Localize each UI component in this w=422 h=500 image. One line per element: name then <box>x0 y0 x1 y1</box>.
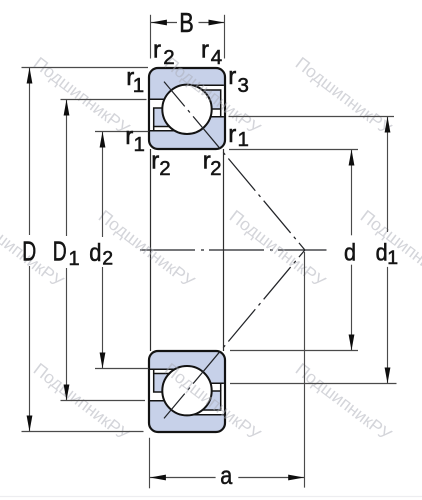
arrow D1 down <box>64 385 70 401</box>
dim line a <box>150 477 216 479</box>
svg-text:2: 2 <box>102 248 113 270</box>
cage left (top section) <box>154 108 191 127</box>
ext line D1 top <box>61 99 147 101</box>
svg-text:d: d <box>376 238 388 265</box>
cage left (bottom section) <box>154 374 191 393</box>
svg-text:2: 2 <box>159 157 170 180</box>
contact angle line upper <box>164 82 305 250</box>
dim line D <box>29 68 31 236</box>
svg-text:d: d <box>89 239 101 267</box>
arrow D down <box>27 416 33 432</box>
svg-text:1: 1 <box>133 74 144 97</box>
svg-text:r: r <box>201 36 209 63</box>
cage right pocket clearance edge (bottom) <box>220 383 222 391</box>
arrow B left <box>151 20 167 26</box>
outer/inner ring block (top) <box>149 68 225 149</box>
arrow D up <box>27 68 33 84</box>
ext line D1 bottom <box>61 400 146 402</box>
inner ring raceway edge right (bottom) <box>187 382 224 384</box>
bearing upper section <box>149 68 225 149</box>
outer surface line <box>223 149 225 351</box>
ext line d1 bottom <box>230 383 397 385</box>
arrow d2 up <box>100 132 106 148</box>
arrow d1 up <box>385 117 391 133</box>
raceway gap right (bottom section) <box>187 383 224 415</box>
outer ring raceway edge right <box>187 84 224 86</box>
bore surface line <box>150 149 152 351</box>
ext line B left <box>150 15 152 59</box>
svg-text:1: 1 <box>238 128 249 151</box>
bearing lower section <box>149 351 225 432</box>
dim line D1 <box>66 100 68 237</box>
arrow a left <box>150 475 166 481</box>
svg-text:1: 1 <box>387 247 398 269</box>
ext line D bottom <box>22 431 144 433</box>
dim line B <box>151 22 177 24</box>
cage left pocket clearance edge (bottom) <box>153 369 155 374</box>
svg-text:2: 2 <box>163 46 174 69</box>
page bottom separator <box>0 496 422 498</box>
ext line d bottom <box>230 350 358 352</box>
svg-text:4: 4 <box>211 46 222 69</box>
arrow D1 up <box>64 100 70 116</box>
ext line d top <box>229 149 358 151</box>
svg-text:D: D <box>22 236 36 267</box>
outer ring raceway edge right (bottom) <box>187 414 224 416</box>
svg-text:r: r <box>228 63 236 90</box>
ball (bottom section) <box>162 366 211 415</box>
ext line d2 top <box>95 131 149 133</box>
arrow d up <box>349 150 355 166</box>
cage right (bottom section) <box>185 391 221 410</box>
cage right pocket clearance edge (top) <box>220 109 222 117</box>
svg-text:B: B <box>179 9 193 39</box>
svg-text:d: d <box>344 238 356 265</box>
ext line a right <box>304 252 306 488</box>
arrow d down <box>349 335 355 351</box>
svg-text:r: r <box>228 121 236 148</box>
inner ring raceway edge left (bottom) <box>150 368 187 370</box>
svg-text:1: 1 <box>134 133 145 156</box>
cage left pocket clearance edge (top) <box>153 127 155 132</box>
ext line D top <box>22 67 149 69</box>
svg-text:r: r <box>125 123 133 150</box>
svg-text:2: 2 <box>210 157 221 180</box>
outer ring raceway edge left <box>150 98 187 100</box>
arrow d1 down <box>385 368 391 384</box>
svg-text:r: r <box>153 36 161 63</box>
dim line d1 <box>387 117 389 233</box>
ext line d2 bottom <box>95 368 149 370</box>
svg-text:3: 3 <box>238 74 249 97</box>
svg-text:a: a <box>220 461 233 489</box>
arrowheads <box>27 20 391 481</box>
ext line d1 top <box>229 116 395 118</box>
dim line d <box>351 150 353 236</box>
inner ring raceway edge right <box>187 116 224 118</box>
inner ring raceway edge left <box>150 130 187 132</box>
ext line B right <box>224 15 226 59</box>
axis centerline <box>140 249 327 251</box>
raceway gap right (top section) <box>187 85 224 117</box>
svg-text:D: D <box>53 236 67 267</box>
watermarks <box>0 53 422 445</box>
raceway gap left (top section) <box>150 99 187 131</box>
cage right (top section) <box>185 90 221 109</box>
outer ring raceway edge left (bottom) <box>150 400 187 402</box>
svg-text:1: 1 <box>69 248 80 270</box>
outer/inner ring block (bottom) <box>149 351 225 432</box>
svg-text:r: r <box>151 147 159 174</box>
contact angle line lower <box>164 250 305 418</box>
ball (top section) <box>162 85 211 134</box>
arrow d2 down <box>100 353 106 369</box>
ext line a left <box>149 438 151 489</box>
dim line d2 <box>102 132 104 238</box>
arrow B right <box>209 20 225 26</box>
arrow a right <box>288 475 304 481</box>
raceway gap left (bottom section) <box>150 369 187 401</box>
